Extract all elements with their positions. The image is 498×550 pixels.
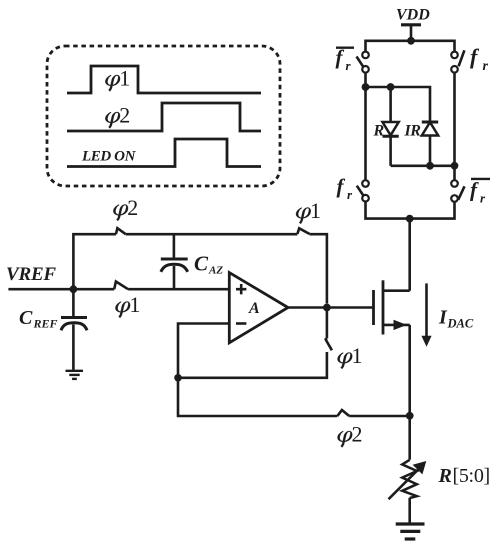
label phi1 VREF switch — [115, 292, 140, 318]
wire VREF input — [8, 288, 229, 291]
svg-text:r: r — [480, 191, 486, 206]
wire resistor to ground — [408, 498, 411, 523]
svg-text:C: C — [194, 252, 209, 276]
label R[5:0] — [438, 465, 490, 487]
label IDAC — [438, 307, 474, 331]
label CREF — [19, 307, 58, 331]
resistor R[5:0] (variable) — [389, 460, 427, 499]
svg-text:DAC: DAC — [447, 317, 474, 331]
wire bottom to rail — [349, 415, 410, 418]
label fr-bar top-left — [336, 45, 355, 73]
svg-text:1: 1 — [119, 66, 130, 91]
ground main — [396, 524, 425, 539]
svg-text:r: r — [346, 58, 352, 73]
svg-text:[5:0]: [5:0] — [453, 465, 490, 487]
label fr-bar bottom-right — [470, 178, 490, 206]
svg-text:C: C — [19, 307, 33, 329]
label fr top-right — [470, 44, 489, 74]
svg-text:f: f — [337, 174, 346, 198]
node bottom rail — [406, 412, 414, 420]
wire VDD stub — [410, 25, 413, 41]
switch phi2 bottom — [337, 410, 349, 416]
svg-text:VREF: VREF — [6, 264, 56, 285]
node VREF — [70, 285, 78, 293]
transistor M1 (NMOS) — [374, 280, 410, 334]
label phi2 top — [113, 195, 138, 221]
wire H-bridge top rail — [366, 41, 455, 52]
svg-text:LED ON: LED ON — [81, 148, 137, 164]
waveform phi1 label — [105, 66, 130, 92]
waveform phi2 label — [105, 103, 130, 129]
label phi1 feedback — [338, 343, 363, 369]
diode IR (LED) — [422, 122, 438, 136]
switch fr-bar top-left — [357, 52, 369, 73]
wire R branch lower — [389, 136, 392, 166]
svg-text:r: r — [483, 59, 489, 74]
svg-text:2: 2 — [127, 195, 138, 220]
wire R branch upper — [389, 87, 392, 122]
node VDD junction — [407, 37, 415, 45]
switch fr top-right — [451, 50, 464, 72]
timing diagram dashed box — [47, 46, 280, 186]
VDD supply bar — [401, 23, 421, 26]
switch phi1 top-right — [297, 228, 309, 234]
node right rail mid — [451, 162, 459, 170]
label fr bottom-left — [337, 174, 354, 202]
wire feedback down — [178, 378, 337, 416]
op-amp U1 — [229, 273, 288, 343]
svg-text:1: 1 — [352, 343, 363, 368]
wire top autozero rail — [73, 234, 327, 303]
wire feedback horizontal — [178, 352, 327, 378]
label phi1 top-right — [296, 198, 321, 224]
svg-text:1: 1 — [129, 292, 140, 317]
svg-text:2: 2 — [352, 422, 363, 447]
wire IR branch lower — [429, 136, 432, 166]
wire right rail upper — [453, 72, 456, 180]
svg-text:IR: IR — [404, 122, 422, 139]
svg-text:I: I — [438, 307, 448, 329]
svg-text:R: R — [373, 122, 385, 139]
switch fr bottom-left — [357, 180, 369, 201]
svg-text:r: r — [347, 187, 353, 202]
wire op-amp output — [288, 306, 374, 309]
current arrow IDAC — [421, 283, 431, 346]
waveform phi1 trace — [67, 66, 261, 93]
switch phi2 top — [116, 228, 126, 234]
wire left rail upper — [364, 72, 367, 180]
svg-text:2: 2 — [119, 103, 130, 128]
svg-text:VDD: VDD — [396, 7, 430, 24]
wire drain rail — [408, 219, 411, 291]
label CAZ — [194, 252, 223, 277]
node output — [323, 304, 331, 312]
svg-text:1: 1 — [310, 198, 321, 223]
svg-text:f: f — [470, 178, 479, 202]
capacitor CREF — [61, 289, 87, 370]
svg-text:A: A — [248, 300, 260, 317]
svg-text:f: f — [470, 44, 480, 69]
wire inner top — [366, 87, 431, 122]
wire H-bridge bottom — [366, 201, 455, 218]
switch phi1 feedback (vertical) — [325, 308, 332, 351]
node H-bridge left — [362, 83, 370, 91]
waveform LED ON trace — [67, 139, 261, 167]
svg-text:AZ: AZ — [208, 265, 223, 277]
node feedback — [174, 374, 182, 382]
switch phi1 on VREF line — [114, 282, 128, 290]
wire minus input — [178, 324, 229, 378]
node IR branch bottom — [426, 162, 434, 170]
label phi2 bottom — [338, 422, 363, 448]
wire source rail down — [408, 325, 411, 460]
waveform phi2 trace — [67, 103, 261, 131]
switch fr-bar bottom-right — [451, 180, 464, 202]
svg-text:R: R — [438, 465, 452, 487]
diode R (LED) — [383, 122, 399, 136]
wire inner bottom — [391, 165, 455, 168]
node H-bridge bottom — [406, 215, 414, 223]
capacitor CAZ — [161, 234, 188, 289]
node R branch top — [387, 83, 395, 91]
svg-text:REF: REF — [33, 317, 58, 331]
ground CREF — [66, 371, 84, 379]
